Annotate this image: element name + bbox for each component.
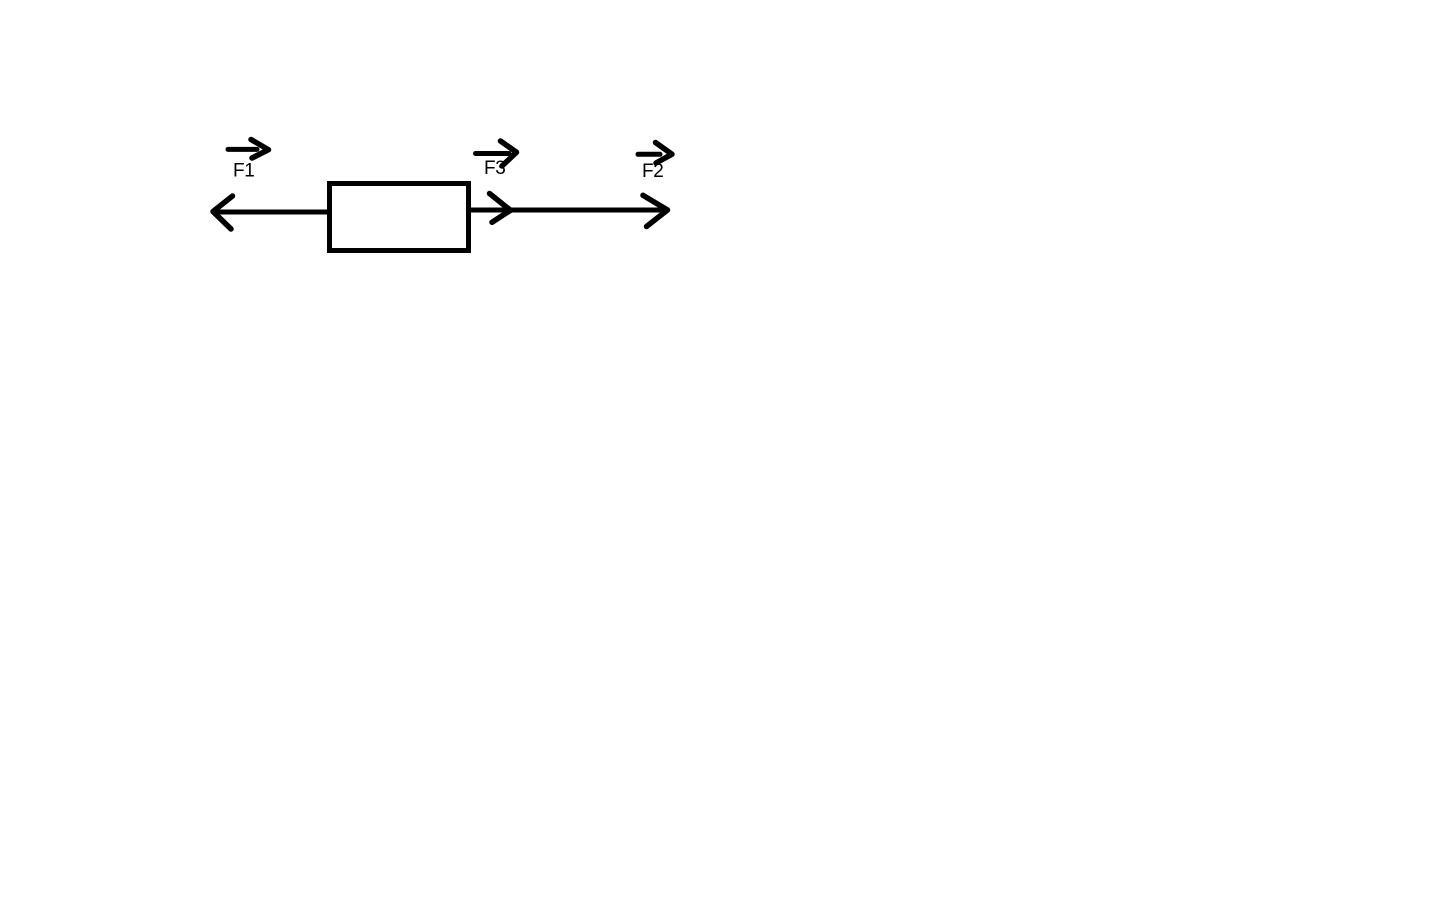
wire right (line from block to right arrowhead) (471, 208, 662, 213)
svg-text:F3: F3 (484, 158, 505, 179)
block (rectangle body) (330, 184, 469, 251)
svg-text:F1: F1 (233, 161, 254, 182)
wire left (line from block to left arrowhead) (216, 210, 328, 215)
force arrow F2 (small, top-right) (638, 143, 672, 164)
arrowhead middle (on right wire near block) (490, 194, 511, 223)
arrowhead left (tip of left force) (213, 196, 233, 229)
arrowhead right (tip of right force) (643, 195, 668, 226)
force arrow F1 (small, top-left) (228, 140, 269, 159)
svg-text:F2: F2 (642, 161, 663, 182)
force arrow F3 (small, top-middle) (476, 141, 517, 166)
